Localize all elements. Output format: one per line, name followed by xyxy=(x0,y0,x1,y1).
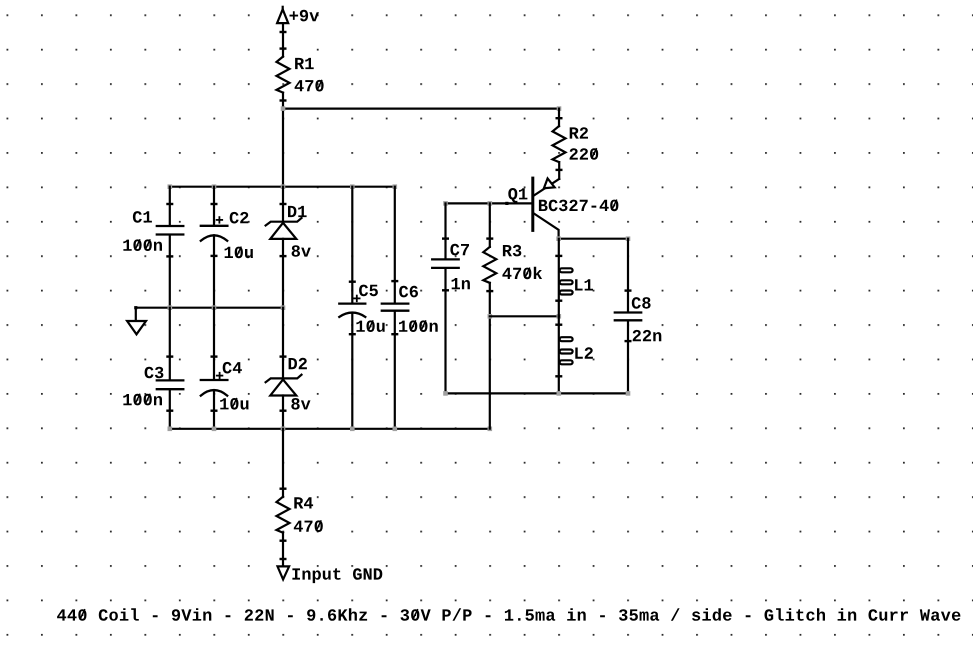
caption text xyxy=(57,608,960,621)
pin tick C1 top xyxy=(168,203,173,205)
pin tick R2 top xyxy=(557,117,562,119)
pin tick C2 bottom xyxy=(212,255,217,257)
pin tick R3 top xyxy=(488,237,493,239)
junction top rail C2 xyxy=(212,184,217,189)
resistor R4 xyxy=(277,497,290,533)
junction collector L1 xyxy=(556,236,561,241)
wire C1 bottom lead xyxy=(169,236,171,308)
capacitor C3 xyxy=(157,380,184,389)
inductor L1 xyxy=(559,239,573,317)
transistor Q1 collector xyxy=(534,214,559,239)
C1 label xyxy=(133,211,152,223)
pin tick D1 bottom xyxy=(281,255,286,257)
tap wire to coil xyxy=(490,315,559,317)
pin tick C6 top xyxy=(393,280,398,282)
transistor Q1 base bar xyxy=(531,178,534,230)
R2 value 220 xyxy=(570,148,599,160)
resistor R2 xyxy=(553,126,566,162)
zener diode D1 xyxy=(266,218,302,239)
capacitor C6 xyxy=(382,304,409,311)
wire R2 to emitter xyxy=(558,162,560,179)
junction node xyxy=(281,106,286,111)
C4 label xyxy=(223,362,242,374)
resistor R3 xyxy=(483,247,496,283)
junction bottom rail D2 xyxy=(281,427,286,432)
pin tick R4 bottom xyxy=(281,540,286,542)
capacitor C8 xyxy=(615,313,641,321)
resistor R1 xyxy=(277,57,290,93)
pin tick C6 bottom xyxy=(393,333,398,335)
wire C7 top lead xyxy=(444,203,446,258)
pin tick R2 bottom xyxy=(557,169,562,171)
junction bottom rail C6 xyxy=(393,427,398,432)
C7 label xyxy=(450,244,469,256)
junction lower rail L2 xyxy=(557,391,562,396)
pin tick L2 top xyxy=(557,324,562,326)
R4 label xyxy=(294,497,313,508)
C7 value 1n xyxy=(452,278,470,289)
wire junction row to R2 xyxy=(283,107,559,109)
D1 value 8v xyxy=(292,245,311,257)
junction mid rail C2 xyxy=(212,305,217,310)
C3 value 100n xyxy=(123,394,162,406)
C2 label xyxy=(230,212,249,224)
C8 label xyxy=(632,297,651,309)
wire C5 bottom lead xyxy=(351,313,353,429)
wire end dot xyxy=(505,202,508,205)
junction mid rail D1 xyxy=(281,305,286,310)
bottom rail wire xyxy=(170,428,490,430)
pin tick C8 top xyxy=(626,289,631,291)
R4 value 470 xyxy=(294,520,323,532)
C8 value 22n xyxy=(633,330,662,341)
R3 label xyxy=(503,245,521,257)
transistor Q1 emitter xyxy=(534,179,559,196)
wire R4 top lead xyxy=(282,429,284,497)
node Input GND label xyxy=(292,568,382,583)
C4 value 10u xyxy=(220,398,248,410)
lower rail wire C7 L2 C8 xyxy=(446,392,629,394)
wire C2 top lead xyxy=(213,187,215,225)
C6 value 100n xyxy=(399,320,438,332)
junction R3 tap xyxy=(488,314,493,319)
wire C8 bottom lead xyxy=(627,321,629,393)
junction top rail C5 xyxy=(350,184,355,189)
pin tick L1 top xyxy=(557,255,562,257)
capacitor C4 polarized xyxy=(201,380,228,396)
junction collector C8 xyxy=(626,236,631,241)
zener diode D2 xyxy=(266,375,302,396)
wire +9v to R1 xyxy=(282,23,284,57)
pin tick D2 top xyxy=(281,355,286,357)
wire C2 bottom lead xyxy=(213,235,215,307)
pin tick C1 bottom xyxy=(168,255,173,257)
top rail wire xyxy=(170,186,395,188)
input gnd arrow xyxy=(278,566,290,579)
wire end dot xyxy=(134,306,137,309)
pin tick C7 bottom xyxy=(443,289,448,291)
pin tick C5 top xyxy=(350,281,355,283)
node +9v label xyxy=(290,10,320,22)
capacitor C2 polarized xyxy=(201,226,228,241)
wire C6 top lead xyxy=(394,187,396,303)
Q1 value BC327-40 xyxy=(539,200,619,212)
junction base wire R3 xyxy=(488,201,493,206)
wire D1 top lead xyxy=(282,187,284,222)
wire D1 bottom lead xyxy=(282,239,284,308)
wire C4 top lead xyxy=(213,308,215,379)
D2 label xyxy=(289,358,307,369)
junction lower rail C8 xyxy=(626,391,631,396)
wire D2 bottom lead xyxy=(282,396,284,429)
pin tick xyxy=(281,558,286,560)
pin tick xyxy=(281,31,286,33)
D1 label xyxy=(288,206,307,217)
ground symbol xyxy=(127,308,146,335)
junction bottom rail C4 xyxy=(212,427,217,432)
pin tick D1 top xyxy=(281,203,286,205)
junction bottom rail C3 xyxy=(168,427,173,432)
junction bottom rail C5 xyxy=(350,427,355,432)
wire R3 top lead xyxy=(489,203,491,247)
wire D2 top lead xyxy=(282,308,284,379)
C2 plus mark xyxy=(217,217,223,223)
pin tick C3 top xyxy=(168,355,173,357)
pin tick C2 top xyxy=(212,203,217,205)
power +9v symbol xyxy=(277,7,288,23)
transistor Q1 emitter arrow xyxy=(544,178,555,188)
wire R3 bottom to rail xyxy=(489,283,491,429)
capacitor C7 xyxy=(432,259,459,268)
wire R1 down to top rail xyxy=(282,93,284,187)
junction top rail C6 xyxy=(393,184,398,189)
pin tick C4 top xyxy=(212,355,217,357)
wire C1 top lead xyxy=(169,187,171,225)
junction top rail D1 xyxy=(281,184,286,189)
C5 label xyxy=(359,285,378,297)
D2 value 8v xyxy=(291,398,310,410)
junction base wire C7 xyxy=(443,201,448,206)
C4 plus mark xyxy=(217,373,223,379)
C5 value 10u xyxy=(356,320,384,332)
junction top rail C1 xyxy=(168,184,173,189)
Q1 label xyxy=(508,188,527,203)
C3 label xyxy=(145,367,164,379)
capacitor C5 polarized xyxy=(339,304,365,317)
wire C7 bottom lead xyxy=(444,269,446,394)
junction coil tap xyxy=(557,314,562,319)
C5 plus mark xyxy=(354,296,360,302)
wire C8 top lead xyxy=(627,239,629,312)
junction mid rail C1 xyxy=(168,305,173,310)
pin tick L2 bottom xyxy=(557,375,562,377)
junction bottom rail R3 xyxy=(488,427,493,432)
pin tick C4 bottom xyxy=(212,410,217,412)
pin tick R3 bottom xyxy=(488,290,493,292)
wire C6 bottom lead xyxy=(394,312,396,429)
inductor L2 xyxy=(559,316,573,393)
C6 label xyxy=(399,286,418,298)
L2 label xyxy=(575,347,593,358)
mid rail wire xyxy=(136,307,282,309)
wire R2 top lead xyxy=(558,109,560,127)
wire C3 bottom lead xyxy=(169,390,171,429)
collector wire to C8 xyxy=(559,238,628,240)
wire C4 bottom lead xyxy=(213,390,215,429)
R1 label xyxy=(295,58,314,69)
wire R4 to gnd arrow xyxy=(282,533,284,567)
pin tick R1 top xyxy=(281,47,286,49)
R2 label xyxy=(570,127,588,138)
pin tick R1 bottom xyxy=(281,99,286,101)
pin tick C7 top xyxy=(443,237,448,239)
junction node R2 top xyxy=(557,106,562,111)
L1 label xyxy=(575,279,593,290)
wire C3 top lead xyxy=(169,308,171,380)
R1 value 470 xyxy=(295,80,324,92)
pin tick C3 bottom xyxy=(168,410,173,412)
junction lower rail C7 xyxy=(443,391,448,396)
capacitor C1 xyxy=(157,226,184,235)
base wire to Q1 xyxy=(446,202,533,204)
R3 value 470k xyxy=(502,267,542,280)
pin tick D2 bottom xyxy=(281,410,286,412)
pin tick L1 bottom xyxy=(557,300,562,302)
C2 value 10u xyxy=(225,247,253,259)
pin tick R4 top xyxy=(281,488,286,490)
wire C5 top lead xyxy=(351,187,353,303)
C1 value 100n xyxy=(123,239,162,251)
pin tick C8 bottom xyxy=(626,340,631,342)
pin tick C5 bottom xyxy=(350,333,355,335)
